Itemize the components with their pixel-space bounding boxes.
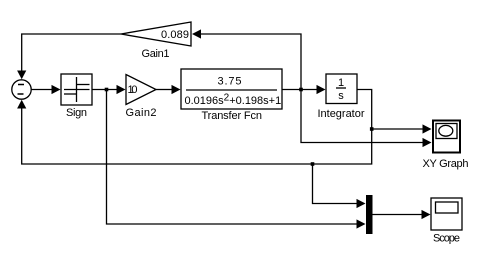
svg-text:Gain2: Gain2 xyxy=(126,107,157,119)
wire sign output to mux input 2 xyxy=(107,90,358,225)
wire sign to gain2 xyxy=(92,89,117,91)
scope block xyxy=(431,198,462,230)
xy graph block xyxy=(433,121,460,153)
arrowhead into transfer fcn xyxy=(172,85,181,94)
svg-text:Gain1: Gain1 xyxy=(142,48,170,60)
svg-text:Integrator: Integrator xyxy=(318,108,365,120)
gain2 Gain2 (triangle, value 10) xyxy=(126,75,156,105)
arrowhead into scope xyxy=(422,210,431,219)
svg-text:3.75: 3.75 xyxy=(218,76,242,88)
sign block xyxy=(61,74,92,105)
wire transfer fcn output down to xy graph input 2 xyxy=(301,90,423,143)
integrator block (1/s) xyxy=(326,74,357,104)
gain1 Gain1 (left pointing triangle, value 0.089) xyxy=(121,22,191,46)
junction dot after sign xyxy=(105,88,109,92)
wire gain1 output to sum top input xyxy=(22,34,121,72)
arrowhead into gain1 xyxy=(192,29,201,38)
arrowhead into gain2 xyxy=(117,85,126,94)
svg-text:0.089: 0.089 xyxy=(161,29,189,41)
wire mux to scope xyxy=(373,214,423,216)
wire feedback to sum bottom input xyxy=(22,106,372,164)
svg-text:s: s xyxy=(338,90,344,102)
sum block (circle with two minus signs) xyxy=(12,80,31,99)
arrowhead into sum top xyxy=(17,71,26,80)
arrowhead into mux input 1 xyxy=(357,199,366,208)
junction dot after transfer fcn xyxy=(299,88,303,92)
mux (black bar) xyxy=(366,195,373,234)
arrowhead into xy graph input 1 xyxy=(423,124,432,133)
arrowhead into sign xyxy=(52,85,61,94)
arrowhead into sum bottom xyxy=(17,100,26,109)
arrowhead into mux input 2 xyxy=(357,219,366,228)
wire transfer fcn to integrator xyxy=(282,89,317,91)
svg-text:1: 1 xyxy=(338,77,344,89)
wire gain2 to transfer fcn xyxy=(156,89,172,91)
wire to mux input 1 xyxy=(313,164,358,204)
wire sum to sign xyxy=(31,89,53,91)
transfer fcn block xyxy=(181,69,282,109)
junction dot integrator output branch xyxy=(370,127,374,131)
svg-text:Sign: Sign xyxy=(66,107,87,119)
svg-text:XY Graph: XY Graph xyxy=(423,158,469,170)
wire integrator to xy graph input 1 xyxy=(357,90,423,130)
junction dot on feedback line xyxy=(311,162,315,166)
wire transfer fcn output up to gain1 input xyxy=(200,34,301,90)
svg-text:Transfer Fcn: Transfer Fcn xyxy=(202,110,263,122)
arrowhead into xy graph input 2 xyxy=(423,138,432,147)
svg-text:10: 10 xyxy=(128,84,138,96)
svg-text:Scope: Scope xyxy=(433,233,460,245)
svg-text:0.0196s2+0.198s+1: 0.0196s2+0.198s+1 xyxy=(185,93,282,108)
arrowhead into integrator xyxy=(317,85,326,94)
